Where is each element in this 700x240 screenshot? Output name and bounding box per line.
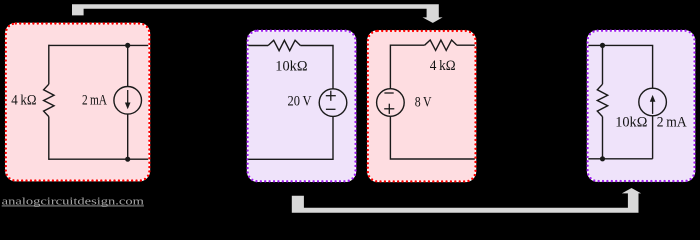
- box1 wire top: [49, 44, 148, 46]
- box1 wire left lower lead: [48, 117, 50, 160]
- box3 wire top-left: [390, 45, 424, 88]
- svg-text:2 mA: 2 mA: [82, 92, 107, 109]
- box3 wire top-right lead: [457, 44, 475, 46]
- box 3 panel (pink, red dotted border): [368, 31, 476, 182]
- svg-text:10kΩ: 10kΩ: [615, 114, 647, 131]
- resistor 10k (box4, vertical zigzag): [597, 84, 607, 116]
- svg-text:4 kΩ: 4 kΩ: [11, 92, 36, 109]
- svg-text:8 V: 8 V: [415, 93, 432, 110]
- voltage source V2 8V (box3, reversed polarity): [377, 89, 405, 117]
- current source I2 2mA (box4, arrow up): [639, 88, 667, 159]
- svg-text:2 mA: 2 mA: [657, 114, 687, 131]
- box1 wire bottom: [49, 158, 148, 160]
- resistor 10k (box2, horizontal zigzag): [268, 40, 300, 50]
- junction node (box4 bottom): [600, 156, 605, 161]
- box4 resistor branch lower lead: [602, 117, 604, 159]
- watermark analogcircuitdesign.com: [2, 196, 145, 208]
- svg-text:20 V: 20 V: [288, 93, 312, 110]
- resistor 4k (box1, vertical zigzag): [44, 84, 54, 116]
- box4 resistor branch upper lead: [602, 45, 604, 84]
- junction node (box1 bottom): [125, 157, 130, 162]
- box4 wire top: [588, 45, 652, 88]
- junction node (box4 top): [600, 43, 605, 48]
- svg-text:10kΩ: 10kΩ: [275, 58, 307, 75]
- transformation arrow (top, box1 to box3): [72, 4, 445, 24]
- box3 wire bottom: [390, 116, 474, 159]
- box4 wire bottom: [588, 158, 652, 160]
- box 4 panel (lavender, purple dotted border): [588, 31, 695, 181]
- junction node (box1 top): [125, 43, 130, 48]
- transformation arrow (bottom, box2 to box4): [291, 187, 643, 213]
- resistor 4k (box3, horizontal zigzag): [425, 40, 457, 50]
- box 1 panel (pink, red dotted border): [6, 24, 150, 181]
- box2 wire top-left lead: [248, 45, 268, 47]
- voltage source V1 20V (box2): [319, 89, 347, 117]
- box1 wire left upper lead: [48, 45, 50, 84]
- svg-text:4 kΩ: 4 kΩ: [430, 57, 456, 74]
- box2 wire top-right: [300, 46, 333, 89]
- current source I1 2mA (box1): [114, 45, 142, 159]
- box 2 panel (lavender, purple dotted border): [248, 31, 356, 182]
- box2 wire bottom: [248, 116, 333, 159]
